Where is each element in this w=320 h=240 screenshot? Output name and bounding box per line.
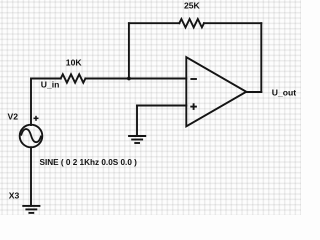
svg-text:U_in: U_in [41, 80, 60, 90]
wire feedback left riser from junction up to R2 [128, 23, 130, 78]
svg-text:25K: 25K [184, 1, 201, 11]
ground symbol at non-inverting input [128, 136, 146, 143]
svg-text:U_out: U_out [272, 88, 296, 98]
wire feedback right riser down to output node [260, 23, 262, 92]
wire op-amp output to node U_out [246, 91, 261, 93]
op-amp non-inverting input plus symbol [190, 103, 197, 110]
op-amp U1 triangle body [186, 57, 246, 126]
svg-text:V2: V2 [8, 112, 19, 122]
wire V2 minus terminal down to ground X3 [30, 147, 32, 206]
wire V2 plus terminal up and right to R1 10K left lead [31, 79, 61, 126]
node U_in junction dot [127, 77, 131, 81]
resistor R1 10K zigzag [61, 74, 86, 82]
wire R2 25K right lead to feedback right riser [204, 22, 261, 24]
voltage source V2 circle [20, 125, 43, 148]
svg-text:X3: X3 [9, 190, 20, 200]
svg-text:SINE ( 0 2 1Khz 0.0S 0.0 ): SINE ( 0 2 1Khz 0.0S 0.0 ) [40, 158, 138, 167]
resistor R2 25K zigzag [179, 19, 204, 27]
wire R1 right lead to op-amp inverting input (through node U_in junction) [85, 78, 186, 80]
svg-text:10K: 10K [66, 58, 83, 68]
wire ground to op-amp non-inverting input [137, 105, 186, 107]
op-amp inverting input minus symbol [190, 78, 197, 80]
wire top feedback left segment to R2 25K left lead [129, 22, 179, 24]
voltage source V2 plus polarity mark [34, 116, 39, 121]
voltage source V2 sine waveform [21, 129, 41, 142]
wire riser from non-inverting input down to ground [136, 106, 138, 136]
ground symbol X3 at source [22, 206, 40, 213]
